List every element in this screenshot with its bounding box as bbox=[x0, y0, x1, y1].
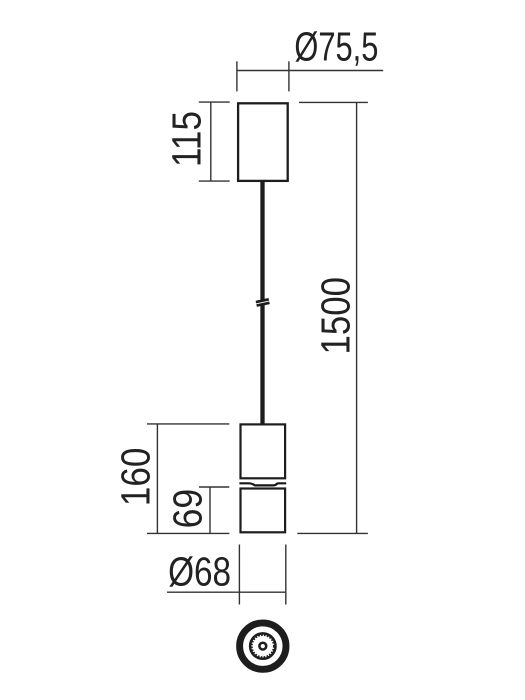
dimension 115 extension ticks bbox=[199, 101, 230, 103]
dimension 69 line bbox=[209, 487, 211, 533]
canopy (ceiling rose) rectangle bbox=[238, 103, 288, 181]
cable break mark bbox=[256, 298, 270, 306]
bottom view dashed circle bbox=[252, 635, 274, 657]
dimension 1500 extension ticks bbox=[299, 101, 368, 103]
svg-text:1500: 1500 bbox=[312, 277, 358, 355]
dimension Ø68 extension lines bbox=[238, 545, 240, 605]
svg-text:160: 160 bbox=[112, 448, 158, 507]
bottom view outer ring bbox=[240, 623, 286, 669]
dimension 69 extension tick bbox=[199, 486, 229, 488]
dimension Ø75,5 line bbox=[237, 70, 383, 72]
dimension 115 line bbox=[210, 102, 212, 181]
dimension 1500 line bbox=[356, 102, 358, 533]
bottom view middle circle bbox=[250, 633, 275, 658]
lamp lens / reflector profile bbox=[239, 483, 286, 485]
bottom view center donut bbox=[259, 643, 266, 650]
svg-text:Ø75,5: Ø75,5 bbox=[294, 24, 378, 70]
dimension Ø68 line bbox=[167, 591, 286, 593]
svg-text:115: 115 bbox=[164, 111, 210, 167]
lamp lower body rectangle bbox=[241, 489, 286, 533]
svg-text:Ø68: Ø68 bbox=[168, 548, 231, 594]
svg-text:69: 69 bbox=[165, 489, 211, 528]
dimension Ø75,5 extension lines bbox=[236, 61, 238, 91]
lamp upper body rectangle bbox=[241, 424, 286, 478]
dimension 160 extension ticks bbox=[147, 423, 229, 425]
dimension 160 line bbox=[156, 424, 158, 534]
cable / suspension wire bbox=[260, 181, 264, 424]
